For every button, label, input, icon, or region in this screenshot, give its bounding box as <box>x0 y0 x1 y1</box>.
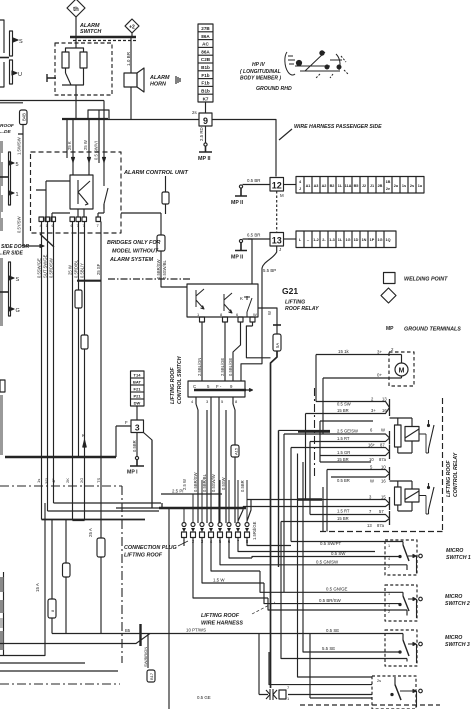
relay K box inside unit <box>70 175 93 209</box>
wire 2.5 PI <box>161 493 222 495</box>
connector strip 1 (16 cells) <box>296 177 424 194</box>
svg-text:G: G <box>16 308 20 314</box>
tick <box>0 57 9 59</box>
wire motor-top to funnel A <box>315 355 317 402</box>
component box B17 <box>147 670 155 682</box>
svg-text:+2: +2 <box>129 25 135 31</box>
component box B4B <box>20 110 28 125</box>
svg-text:3: 3 <box>135 423 140 433</box>
connector upper-left partial box <box>0 20 4 87</box>
svg-text:--: -- <box>307 238 310 242</box>
svg-text:W: W <box>253 312 257 317</box>
svg-text:16+: 16+ <box>368 443 376 448</box>
svg-text:0.5BL/Y: 0.5BL/Y <box>80 263 85 278</box>
svg-text:F21: F21 <box>134 387 142 392</box>
svg-text:SWITCH 1: SWITCH 1 <box>446 555 471 561</box>
svg-text:B17: B17 <box>149 672 154 680</box>
svg-text:0.5 BR/SW: 0.5 BR/SW <box>319 598 342 603</box>
relay2 wires <box>390 481 413 511</box>
svg-text:1G: 1G <box>345 238 350 242</box>
svg-text:1s: 1s <box>36 479 41 483</box>
wire 2.5PI into plug area <box>152 440 162 508</box>
arrow U <box>12 71 17 75</box>
svg-text:0.5 GN/SW: 0.5 GN/SW <box>316 560 339 565</box>
svg-text:MP II: MP II <box>231 255 244 261</box>
svg-text:5A: 5A <box>275 343 280 348</box>
tick on wire <box>18 133 23 135</box>
svg-text:5.5 BP: 5.5 BP <box>263 268 276 273</box>
wire diamond2 to bus <box>131 33 133 37</box>
switch inside unit <box>104 170 108 209</box>
bus y119 thick <box>62 118 108 120</box>
thick bus y280.7 <box>77 280 101 282</box>
big box right dashed edge <box>442 398 444 533</box>
component box S on wire 161 <box>157 235 165 251</box>
svg-text:1.5 GR: 1.5 GR <box>337 450 350 455</box>
svg-text:SWITCH: SWITCH <box>80 29 101 35</box>
svg-text:2K: 2K <box>65 478 70 483</box>
thick bus y457 <box>5 456 116 458</box>
ground MP II left of 12 <box>231 185 247 206</box>
svg-text:86A: 86A <box>201 50 210 55</box>
svg-text:15 BR: 15 BR <box>337 516 349 521</box>
arrow S <box>13 38 18 42</box>
K symbol <box>78 180 90 205</box>
ground RHD body sketch <box>285 51 348 78</box>
wires entering unit from bus <box>67 101 104 164</box>
svg-text:87a: 87a <box>379 457 387 462</box>
wire motor-bottom to funnel B <box>322 378 324 434</box>
svg-text:5: 5 <box>16 162 19 168</box>
wires turning right <box>48 503 162 511</box>
svg-text:2s: 2s <box>410 184 414 188</box>
micro switch 2 <box>385 585 422 621</box>
svg-text:0.5SW/W: 0.5SW/W <box>211 474 216 492</box>
entry arrows <box>72 158 106 163</box>
svg-text:W: W <box>267 311 272 315</box>
wires G21 pins down to control switch <box>202 322 241 381</box>
left connector 1 (mid) <box>0 141 19 231</box>
svg-text:4: 4 <box>191 399 194 404</box>
internal wires of unit <box>36 181 70 222</box>
svg-text:0.5 SW: 0.5 SW <box>331 551 346 556</box>
svg-text:WIRE HARNESS PASSENGER SIDE: WIRE HARNESS PASSENGER SIDE <box>294 124 382 130</box>
svg-text:2: 2 <box>391 347 394 352</box>
svg-text:W: W <box>370 479 374 484</box>
svg-text:1L: 1L <box>338 184 343 188</box>
funnel E <box>243 500 390 507</box>
svg-text:87: 87 <box>380 443 385 448</box>
svg-text:MODEL WITHOUT: MODEL WITHOUT <box>112 249 159 255</box>
rotated labels above plug <box>182 472 245 492</box>
svg-text:SWITCH 2: SWITCH 2 <box>445 601 470 607</box>
svg-text:MICRO: MICRO <box>446 548 463 554</box>
unit pin row <box>39 217 101 228</box>
wire 0.5 BR/SW <box>264 583 400 604</box>
thick wire y519.5 <box>42 519 146 521</box>
svg-text:0+: 0+ <box>377 373 382 378</box>
svg-text:7: 7 <box>287 685 290 690</box>
svg-text:0.5SW: 0.5SW <box>221 477 226 490</box>
wire 5.5 SE sw3 in2 <box>303 462 400 652</box>
horn symbol <box>176 76 180 84</box>
svg-text:3: 3 <box>206 399 209 404</box>
svg-text:M: M <box>280 193 284 198</box>
svg-text:1s: 1s <box>402 184 406 188</box>
switch K in G21 <box>244 296 252 317</box>
svg-text:A2: A2 <box>322 184 327 188</box>
motor wire top <box>316 355 402 364</box>
svg-text:1B: 1B <box>386 180 391 184</box>
svg-text:2e: 2e <box>386 187 390 191</box>
svg-text:..ER SIDE: ..ER SIDE <box>0 251 23 257</box>
svg-text:U: U <box>18 72 22 78</box>
wire box3 left <box>116 426 131 457</box>
svg-text:0.5BR/BL: 0.5BR/BL <box>202 473 207 492</box>
svg-text:15 1k: 15 1k <box>338 349 350 354</box>
svg-text:16: 16 <box>381 479 386 484</box>
svg-text:3+: 3+ <box>371 408 376 413</box>
svg-text:1L: 1L <box>338 238 343 242</box>
arrow up on wire F <box>83 440 86 447</box>
svg-text:1.0 BR: 1.0 BR <box>126 51 131 66</box>
svg-text:BODY MEMBER ): BODY MEMBER ) <box>240 76 281 82</box>
svg-text:ALARM CONTROL UNIT: ALARM CONTROL UNIT <box>123 170 188 176</box>
sub box upper <box>320 421 373 462</box>
wire L1 thick top <box>279 429 331 431</box>
wire ground to box 12 <box>243 184 271 186</box>
svg-text:15 BR: 15 BR <box>337 457 349 462</box>
contact box relay1 <box>405 427 419 442</box>
connector box 9 <box>199 113 212 126</box>
svg-text:8: 8 <box>235 399 238 404</box>
svg-text:57: 57 <box>379 509 384 514</box>
svg-text:MP: MP <box>386 326 394 332</box>
svg-text:1.5Rd/GE: 1.5Rd/GE <box>252 521 257 540</box>
thick bus y508 <box>159 507 246 509</box>
junction arrow left <box>23 245 44 248</box>
svg-text:GROUND TERMINALS: GROUND TERMINALS <box>404 327 461 333</box>
control switch box <box>188 381 245 397</box>
svg-text:MP II: MP II <box>198 156 211 162</box>
svg-text:5: 5 <box>207 384 210 389</box>
wire box9 right then down to box 12 <box>212 120 276 177</box>
svg-text:13: 13 <box>382 397 387 402</box>
relay1 wires <box>390 418 413 453</box>
connector strip column (top right) <box>198 24 213 102</box>
svg-text:F1b: F1b <box>201 81 209 86</box>
svg-text:0.5 GE: 0.5 GE <box>197 695 211 700</box>
svg-text:J2: J2 <box>362 184 366 188</box>
funnel C <box>291 448 390 456</box>
svg-text:A3: A3 <box>314 184 319 188</box>
svg-text:25 W: 25 W <box>68 265 73 275</box>
svg-text:W: W <box>381 428 385 433</box>
svg-text:WELDING POINT: WELDING POINT <box>404 277 448 283</box>
svg-text:1: 1 <box>16 192 19 198</box>
svg-text:2: 2 <box>388 565 390 569</box>
funnel D verticals <box>327 470 331 532</box>
svg-text:K7: K7 <box>203 97 209 102</box>
svg-text:25 W: 25 W <box>83 140 88 150</box>
svg-text:3: 3 <box>369 495 372 500</box>
thick vertical from fuse 5A down to connector pair <box>271 351 278 688</box>
svg-text:K: K <box>240 296 243 301</box>
wire from diamond down <box>75 17 77 42</box>
connector box 12 <box>270 178 284 192</box>
wire A <box>41 222 43 458</box>
welding point square <box>384 273 396 284</box>
svg-text:2.5 PI: 2.5 PI <box>172 489 183 494</box>
svg-text:1Q: 1Q <box>385 238 390 242</box>
switch pins bottom ticks <box>196 397 233 404</box>
svg-text:4: 4 <box>388 557 390 561</box>
transistor Q2 in G21 <box>224 293 232 313</box>
svg-text:2u: 2u <box>394 184 399 188</box>
svg-text:6.5 BR: 6.5 BR <box>247 233 260 238</box>
left edge small box mid <box>0 380 5 392</box>
wire with label SW/BR/GN <box>147 634 149 669</box>
svg-text:2.5 GE/SW: 2.5 GE/SW <box>337 429 358 434</box>
svg-text:ALARM: ALARM <box>149 75 170 81</box>
svg-text:3SL: 3SL <box>44 476 49 484</box>
jog wire <box>88 110 109 120</box>
svg-text:2: 2 <box>371 397 374 402</box>
transistor Q1 in G21 <box>196 289 204 309</box>
svg-text:2.5 RD: 2.5 RD <box>199 127 204 141</box>
labels under bus <box>36 476 101 484</box>
svg-text:C2B: C2B <box>201 57 211 62</box>
wire 0.5 SW/RT <box>291 541 403 543</box>
wire box9 down to ground <box>205 126 207 143</box>
funnel D <box>327 470 390 478</box>
micro switch 3 <box>385 630 422 666</box>
svg-text:A1: A1 <box>306 184 311 188</box>
svg-text:0.5 GN/GE: 0.5 GN/GE <box>326 587 348 592</box>
wire column to box 3 <box>136 406 138 420</box>
svg-text:1: 1 <box>287 696 290 701</box>
wire funnelB-lower vertical <box>309 442 311 515</box>
svg-text:ROOF RELAY: ROOF RELAY <box>285 306 319 312</box>
svg-text:7: 7 <box>97 223 100 228</box>
wire sw3 in3 <box>281 522 407 659</box>
svg-text:5.5 SE: 5.5 SE <box>322 646 335 651</box>
ground MP I <box>127 456 144 475</box>
svg-text:B5: B5 <box>125 628 131 633</box>
svg-text:BRIDGES ONLY FOR: BRIDGES ONLY FOR <box>107 240 161 246</box>
wire L4 <box>298 454 373 678</box>
wire F with component box H <box>84 222 86 458</box>
wires switch down to connector plug <box>196 404 235 523</box>
svg-text:F -: F - <box>216 384 222 389</box>
kink wire left bottom <box>0 634 150 644</box>
switch contact inside alarm switch <box>62 73 84 95</box>
svg-text:DW: DW <box>134 401 141 406</box>
dashed bottom right <box>300 704 440 706</box>
svg-text:16: 16 <box>382 408 387 413</box>
svg-text:1P: 1P <box>370 238 375 242</box>
svg-text:HP IV: HP IV <box>252 62 266 68</box>
svg-text:5: 5 <box>370 465 373 470</box>
svg-text:4F: 4F <box>51 478 56 483</box>
ground terminal diamond MP (alarm switch) <box>67 0 85 17</box>
rotated labels under G21 <box>197 358 233 376</box>
svg-text:LIFTING: LIFTING <box>285 300 305 306</box>
wire 0.5 GN/SW <box>256 564 407 566</box>
alarm control unit dashed box <box>31 152 122 233</box>
wire sw2 in3 <box>268 598 407 610</box>
svg-text:1-3: 1-3 <box>329 238 335 242</box>
motor wire bottom <box>323 376 402 378</box>
svg-text:15 BR: 15 BR <box>337 408 349 413</box>
wire 162 down <box>152 503 162 508</box>
main wire y633.5 <box>52 633 403 635</box>
svg-text:12: 12 <box>272 181 282 191</box>
G21 pins bottom <box>197 312 257 322</box>
wire bus to box 9 <box>108 119 199 121</box>
wire box3 down to ground MP I <box>136 433 138 457</box>
thick mark lower <box>298 498 322 501</box>
switch arrow right <box>246 389 253 392</box>
svg-text:1: 1 <box>388 544 390 548</box>
wire strip to box 9 <box>205 102 207 113</box>
svg-text:1: 1 <box>197 312 200 317</box>
svg-text:SIDE DOOR: SIDE DOOR <box>1 244 29 250</box>
wire 0.5 SW <box>252 557 400 559</box>
svg-text:7: 7 <box>369 509 372 514</box>
svg-text:S: S <box>19 39 23 45</box>
svg-text:3+: 3+ <box>377 350 382 355</box>
wire to inline connector <box>258 634 260 695</box>
svg-text:0.5SW/BL: 0.5SW/BL <box>162 259 167 279</box>
ground terminal diamond 2 <box>125 19 139 33</box>
svg-text:LIFTING ROOF: LIFTING ROOF <box>201 613 240 619</box>
component box upper on wire <box>162 192 169 204</box>
svg-text:0.5 BR: 0.5 BR <box>337 478 350 483</box>
wire B <box>47 222 49 458</box>
svg-text:( LONGITUDINAL: ( LONGITUDINAL <box>240 69 281 75</box>
wire strip2 to box 13 <box>284 238 297 240</box>
svg-text:B1b: B1b <box>201 65 210 70</box>
wire bottom switch in3 <box>310 634 372 699</box>
svg-text:2: 2 <box>388 610 390 614</box>
svg-text:HORN: HORN <box>150 82 166 88</box>
connector strip 2 (13 cells) <box>296 231 396 248</box>
svg-text:P21: P21 <box>133 394 141 399</box>
inline connector pair (bottom) <box>259 685 372 701</box>
svg-text:0.5RD/BL: 0.5RD/BL <box>74 259 79 278</box>
svg-text:F: F <box>125 420 128 425</box>
component box small <box>63 563 71 577</box>
svg-text:2G: 2G <box>79 478 84 483</box>
wire pin1 long down <box>162 508 169 709</box>
wire ground into G21 <box>248 239 252 284</box>
switch contact relay2 <box>429 483 435 514</box>
svg-text:13: 13 <box>367 523 372 528</box>
svg-text:0.5 BR: 0.5 BR <box>247 178 260 183</box>
svg-text:0.5BR: 0.5BR <box>240 480 245 492</box>
bottom horizontals <box>0 663 118 671</box>
svg-text:1.5W/SW: 1.5W/SW <box>17 137 22 155</box>
connector box 13 <box>270 233 284 247</box>
hatch dashes under bus bar <box>73 40 136 42</box>
svg-text:0.5BR: 0.5BR <box>132 440 137 452</box>
svg-text:2s: 2s <box>377 679 381 683</box>
svg-text:10 PT/WS: 10 PT/WS <box>186 628 206 633</box>
funnel F <box>281 515 390 522</box>
wire G21 K-pin jog to fuse wire <box>246 326 270 358</box>
wires inside alarm switch <box>66 42 84 85</box>
svg-text:0.5 SW: 0.5 SW <box>337 402 351 407</box>
svg-text:86A: 86A <box>201 34 210 39</box>
svg-text:th: th <box>73 7 79 13</box>
connector bars S/U <box>10 31 13 84</box>
svg-text:1D: 1D <box>354 238 359 242</box>
funnel B <box>284 434 390 442</box>
svg-text:0.5 SE: 0.5 SE <box>326 628 339 633</box>
svg-text:L: L <box>299 238 302 242</box>
alarm horn speaker <box>124 73 137 87</box>
dashed wire between 12 and 13 <box>276 191 278 233</box>
svg-text:B4B: B4B <box>22 113 27 121</box>
chain boundary y684 <box>0 683 120 685</box>
wire alarm switch to bus y119 <box>75 95 77 119</box>
svg-text:B1b: B1b <box>201 89 210 94</box>
component box A15 <box>231 445 239 457</box>
svg-text:MP II: MP II <box>231 200 244 206</box>
contact box relay2 <box>405 489 419 502</box>
thick junction bar <box>139 624 141 646</box>
chain boundary x122 vertical <box>121 486 123 663</box>
svg-text:13: 13 <box>272 236 282 246</box>
svg-text:WIRE HARNESS: WIRE HARNESS <box>201 621 243 627</box>
svg-text:15: 15 <box>381 495 386 500</box>
chain boundary y486 <box>0 485 122 487</box>
svg-text:G21: G21 <box>282 286 298 296</box>
alarm switch dashed box <box>55 43 112 95</box>
staircase pin wires below plug <box>247 538 291 546</box>
svg-text:B5: B5 <box>354 184 359 188</box>
svg-text:4: 4 <box>388 604 390 608</box>
svg-text:LIFTING ROOF: LIFTING ROOF <box>124 553 163 559</box>
top horizontal wires left <box>0 100 104 102</box>
funnel A <box>306 402 390 414</box>
svg-text:ALARM SYSTEM: ALARM SYSTEM <box>109 257 154 263</box>
pin labels on switch <box>193 384 233 389</box>
wire ground to box 13 <box>243 238 271 240</box>
sub box lower <box>322 487 324 532</box>
svg-text:F1b: F1b <box>201 73 209 78</box>
svg-text:SUT SW/GE: SUT SW/GE <box>43 254 48 278</box>
svg-text:J: J <box>299 187 301 191</box>
wire L3 <box>290 448 292 542</box>
svg-text:S: S <box>16 277 20 283</box>
svg-text:8: 8 <box>220 312 223 317</box>
svg-text:25 A: 25 A <box>88 528 93 537</box>
svg-text:AC: AC <box>202 42 209 47</box>
left connector 2 (side door) <box>0 258 20 326</box>
diagonals into pins 7 8 from right <box>238 500 251 522</box>
wire G <box>100 222 102 458</box>
svg-text:GROUND RHD: GROUND RHD <box>256 86 292 92</box>
svg-text:C: C <box>193 384 196 389</box>
stacked boxes column <box>131 371 145 406</box>
svg-text:MICRO: MICRO <box>445 635 462 641</box>
wire 0.5 GN/GE <box>260 571 403 592</box>
svg-text:A15: A15 <box>234 447 239 455</box>
legend diamond <box>381 288 396 303</box>
svg-text:1N: 1N <box>362 238 367 242</box>
